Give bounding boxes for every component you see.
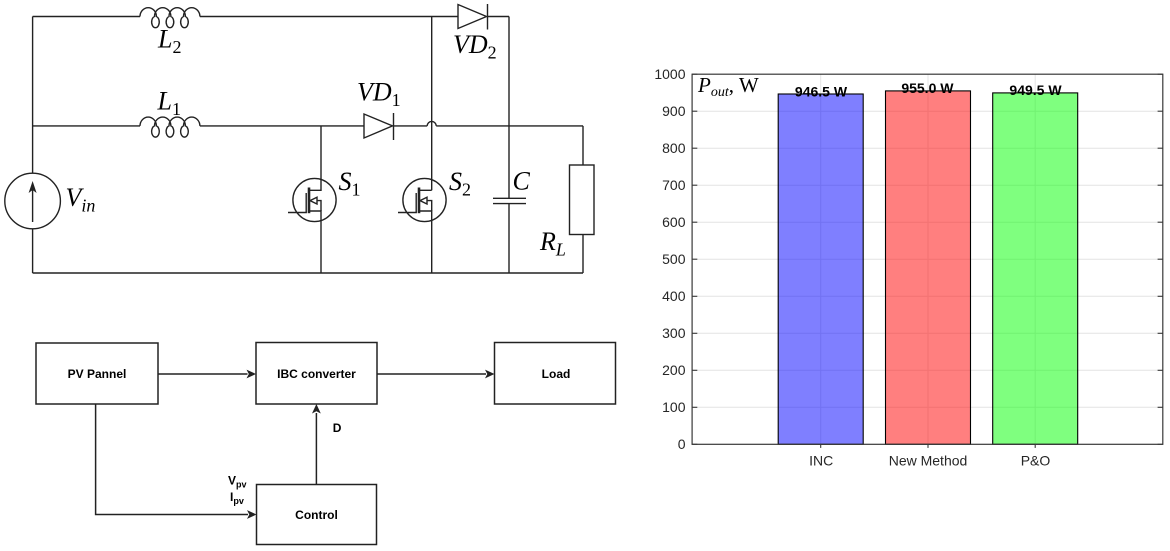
svg-text:955.0 W: 955.0 W: [901, 80, 954, 96]
wire: VD1 cathode to hop: [394, 125, 428, 127]
svg-text:S2: S2: [449, 167, 471, 200]
transistor S1 body-source wire: [317, 201, 321, 211]
inductor L2 coil: [140, 8, 200, 28]
wire: top wire to VD2: [200, 16, 458, 18]
diode VD2 triangle: [458, 5, 487, 29]
svg-text:Load: Load: [542, 367, 571, 381]
transistor S1 gate bar: [305, 193, 307, 213]
svg-text:946.5 W: 946.5 W: [795, 83, 848, 99]
svg-text:VD1: VD1: [357, 78, 401, 111]
svg-text:100: 100: [662, 399, 686, 415]
transistor S2 gate lead: [398, 212, 417, 214]
source Vin circle: [5, 173, 61, 229]
transistor S2 body-source wire: [427, 201, 432, 211]
svg-text:500: 500: [662, 251, 686, 267]
diode VD1 triangle: [364, 114, 393, 138]
svg-text:800: 800: [662, 140, 686, 156]
wire: capacitor top lead: [508, 126, 510, 198]
svg-text:949.5 W: 949.5 W: [1009, 82, 1062, 98]
wire: L1 line left segment: [33, 125, 140, 127]
svg-text:300: 300: [662, 325, 686, 341]
arrowhead into IBC converter: [247, 370, 257, 379]
svg-text:Pout, W: Pout, W: [697, 73, 759, 100]
block Load: [495, 343, 616, 405]
arrow PV Pannel to IBC converter: [158, 373, 248, 375]
transistor S1 drain wire: [310, 126, 322, 190]
arrow IBC converter to Load: [377, 373, 486, 375]
resistor RL body: [570, 165, 595, 235]
transistor S1 channel bar: [308, 188, 311, 214]
wire: vertical from top wire down to S2 drain (crosses L1 line): [431, 17, 433, 191]
wire: left vertical from Vin to bottom wire: [32, 229, 34, 273]
diode VD1 cathode bar: [393, 113, 395, 140]
svg-text:Control: Control: [295, 508, 338, 522]
capacitor C top plate: [493, 197, 526, 199]
svg-text:L1: L1: [157, 87, 181, 120]
svg-text:Vin: Vin: [66, 183, 96, 216]
svg-text:Ipv: Ipv: [230, 490, 244, 506]
transistor S2 body arrow: [420, 197, 427, 204]
bar New Method: [886, 91, 971, 444]
chart ticks: [692, 74, 1163, 448]
svg-text:VD2: VD2: [453, 30, 497, 63]
wire: L1 to VD1: [200, 125, 364, 127]
transistor S1 body arrow: [310, 197, 317, 204]
svg-text:700: 700: [662, 177, 686, 193]
wire: hop to right corner (output node line): [436, 125, 583, 127]
wire: left vertical from top wire to Vin: [32, 17, 34, 174]
arrowhead into Control: [247, 510, 257, 519]
svg-text:INC: INC: [809, 453, 833, 469]
svg-text:S1: S1: [339, 167, 361, 200]
block Control: [257, 485, 377, 545]
wire: RL top lead: [582, 126, 584, 165]
chart gridlines: [692, 74, 1163, 444]
svg-text:IBC converter: IBC converter: [277, 367, 356, 381]
svg-text:P&O: P&O: [1021, 453, 1051, 469]
y tick labels: [654, 66, 685, 452]
transistor S1 source wire: [309, 211, 321, 273]
transistor S2 drain wire: [420, 189, 432, 191]
inductor L1 coil: [140, 117, 200, 137]
svg-text:New Method: New Method: [889, 453, 968, 469]
svg-text:900: 900: [662, 103, 686, 119]
transistor S2 source wire: [419, 211, 432, 273]
svg-text:PV Pannel: PV Pannel: [68, 367, 127, 381]
svg-text:0: 0: [678, 436, 686, 452]
svg-text:1000: 1000: [654, 66, 685, 82]
svg-text:RL: RL: [539, 227, 566, 260]
chart axes box: [692, 74, 1163, 444]
wire: bottom return wire: [33, 272, 583, 274]
svg-text:D: D: [333, 421, 342, 435]
transistor S1 gate lead: [288, 212, 307, 214]
svg-text:400: 400: [662, 288, 686, 304]
svg-text:200: 200: [662, 362, 686, 378]
svg-text:L2: L2: [157, 25, 181, 58]
wire: right vertical from top corner down to output line: [508, 17, 510, 126]
transistor S1 circle: [293, 178, 336, 221]
svg-text:Vpv: Vpv: [228, 474, 247, 490]
x tick labels: [809, 453, 1050, 469]
wire: top wire left segment: [33, 16, 140, 18]
block IBC converter: [256, 343, 377, 405]
transistor S2 circle: [403, 178, 446, 221]
arrowhead into IBC converter from Control: [312, 404, 321, 414]
capacitor C bottom plate: [493, 203, 526, 205]
wire PV Pannel down to Control: [96, 404, 248, 515]
transistor S2 gate bar: [415, 193, 417, 213]
source Vin arrow: [32, 186, 34, 222]
wire hop over S2 drain line: [427, 121, 436, 126]
bar INC: [778, 94, 863, 444]
wire: RL bottom lead: [582, 235, 584, 274]
svg-text:C: C: [513, 167, 531, 196]
wire: capacitor bottom lead: [508, 204, 510, 273]
bar P&O: [993, 93, 1078, 444]
block PV Pannel: [36, 343, 158, 404]
svg-text:600: 600: [662, 214, 686, 230]
transistor S2 channel bar: [418, 188, 421, 214]
arrowhead into Load: [485, 370, 495, 379]
wire: VD2 to top right corner: [488, 16, 510, 18]
arrow Control to IBC converter: [315, 413, 317, 485]
diode VD2 cathode bar: [487, 4, 489, 30]
